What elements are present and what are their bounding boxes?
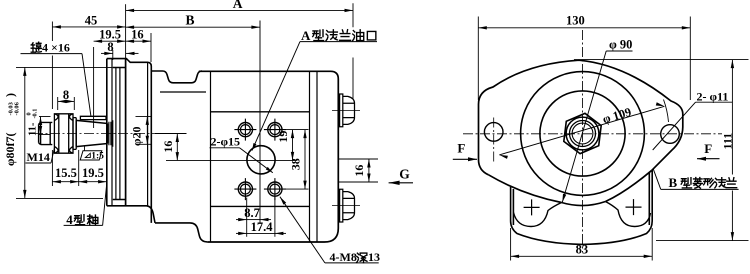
port face bottom edge bbox=[211, 205, 310, 207]
dimension 45 bbox=[52, 26, 125, 28]
dimension 130 extensions bbox=[477, 17, 479, 101]
dimension 83 bbox=[511, 255, 653, 257]
flange bolt hole left bbox=[484, 123, 503, 142]
hex shaft end nut bbox=[564, 113, 601, 153]
dimension A extension left bbox=[125, 4, 127, 58]
dimension B bbox=[126, 26, 260, 28]
dimension 19.5 extension bbox=[93, 47, 95, 128]
dimension phi20 bbox=[146, 116, 148, 144]
dimension 8.7 bbox=[247, 219, 260, 221]
svg-text:11-: 11- bbox=[28, 122, 39, 136]
phi80 extension lines bbox=[16, 66, 113, 68]
dimension 11 taper end bbox=[40, 117, 42, 135]
dimension 38 bbox=[304, 130, 306, 190]
shaft M14 threaded end bbox=[39, 122, 53, 144]
right view horizontal centerline bbox=[463, 133, 722, 135]
seal gland lines bbox=[109, 120, 113, 147]
svg-text:M14: M14 bbox=[27, 150, 50, 164]
flange lower-left edge to cover arc bbox=[489, 175, 562, 203]
M8 socket screw lower-left bbox=[238, 182, 252, 196]
body joint line rear cover bbox=[316, 71, 318, 242]
svg-text:-0.06: -0.06 bbox=[14, 101, 21, 115]
svg-text:130: 130 bbox=[566, 13, 585, 27]
svg-text:φ 90: φ 90 bbox=[609, 37, 632, 51]
M8 socket screw lower-right bbox=[268, 182, 282, 196]
dimension 15.5/19.5 extensions bbox=[52, 148, 106, 186]
shaft washer step bbox=[73, 118, 76, 150]
shaft taper 1:5 section bbox=[76, 120, 107, 146]
svg-text:15.5: 15.5 bbox=[55, 166, 77, 180]
key 4x16 on taper bbox=[80, 116, 106, 119]
label key 4x16 bbox=[31, 42, 41, 52]
dimension phi80f7 bbox=[24, 67, 26, 198]
svg-text:19: 19 bbox=[276, 131, 290, 143]
flange bolt hole right bbox=[661, 125, 680, 144]
svg-text:B: B bbox=[185, 13, 194, 28]
M8 socket screw upper-left bbox=[238, 123, 252, 137]
taper symbol 1:5 flag bbox=[80, 151, 102, 160]
dimension 83 extensions bbox=[510, 228, 512, 261]
dimension 15.5 bbox=[52, 181, 78, 183]
svg-text:B: B bbox=[669, 175, 678, 190]
mounting bracket outline bbox=[511, 171, 653, 245]
svg-text:A: A bbox=[301, 28, 311, 43]
svg-text:F: F bbox=[704, 141, 712, 156]
dimension 111 bbox=[731, 60, 733, 175]
body joint line port-face right edge bbox=[309, 71, 311, 242]
bracket hole center mark right bbox=[626, 199, 642, 215]
svg-text:16: 16 bbox=[161, 141, 175, 153]
dimension 19 extensions bbox=[282, 129, 309, 131]
dimension 111 extensions bbox=[574, 59, 749, 61]
dimension 8 hex bbox=[57, 97, 59, 110]
svg-text:8: 8 bbox=[107, 40, 113, 54]
svg-text:83: 83 bbox=[576, 242, 589, 256]
phi90 cover bottom arc bbox=[562, 202, 606, 206]
port face centerline extension of B bbox=[259, 21, 261, 207]
shaft hex flats section bbox=[54, 114, 73, 153]
svg-text:16: 16 bbox=[352, 165, 366, 177]
flange lower-right edge bbox=[606, 170, 652, 201]
shaft end circle 2 bbox=[570, 121, 596, 147]
flange pilot boss phi80 bbox=[113, 68, 126, 200]
port face top edge bbox=[211, 111, 310, 113]
bracket hole center mark left bbox=[524, 199, 540, 215]
dimension 8 boss bbox=[101, 52, 113, 54]
svg-text:111: 111 bbox=[721, 133, 735, 150]
diamond flange outline bbox=[479, 60, 683, 175]
svg-text:4 ×16: 4 ×16 bbox=[42, 40, 70, 54]
dimension 8.7 extensions bbox=[247, 198, 260, 224]
svg-text:φ80f7(: φ80f7( bbox=[3, 133, 17, 166]
dimension 16 right extensions bbox=[338, 158, 378, 160]
dimension 16 left bbox=[176, 134, 178, 161]
pump body outline bbox=[199, 71, 338, 242]
dimension 19 bbox=[292, 130, 294, 161]
dimension 130 bbox=[478, 27, 690, 29]
dimension 45 extension bbox=[51, 22, 53, 42]
svg-text:G: G bbox=[399, 167, 410, 182]
cover inner circle bbox=[540, 91, 625, 176]
svg-text:17.4: 17.4 bbox=[251, 220, 274, 234]
front cover neck outline bbox=[151, 67, 207, 242]
svg-text:13: 13 bbox=[368, 250, 380, 264]
dimension A extension right bbox=[352, 3, 354, 99]
svg-text:38: 38 bbox=[288, 158, 302, 170]
dimension 19.5 bottom bbox=[79, 181, 107, 183]
dimension 17.4 bbox=[247, 232, 275, 234]
center port hole phi15 bbox=[247, 146, 275, 174]
dimension 17.4 extensions bbox=[247, 198, 275, 237]
dimension 16 left extensions bbox=[155, 133, 187, 135]
svg-text:φ20: φ20 bbox=[129, 127, 143, 147]
svg-text:45: 45 bbox=[85, 13, 98, 27]
rear cover hex bolt lower bbox=[340, 189, 355, 222]
dimension 16 right bbox=[368, 159, 370, 182]
svg-text:-0.1: -0.1 bbox=[31, 109, 38, 119]
svg-text:8.7: 8.7 bbox=[244, 206, 260, 220]
svg-text:): ) bbox=[3, 93, 17, 97]
bolt circle arc at right hole bbox=[664, 100, 669, 123]
svg-text:1:5: 1:5 bbox=[91, 151, 104, 161]
right view vertical centerline bbox=[582, 30, 584, 252]
dimension 19.5 top bbox=[94, 40, 126, 42]
svg-text:19.5: 19.5 bbox=[82, 166, 104, 180]
svg-text:2- φ11: 2- φ11 bbox=[697, 89, 729, 103]
svg-text:4: 4 bbox=[66, 212, 73, 227]
svg-text:F: F bbox=[457, 141, 465, 156]
svg-text:16: 16 bbox=[131, 28, 144, 42]
shaft end circle 1 bbox=[566, 117, 599, 150]
flange mounting face datum bbox=[125, 59, 127, 206]
M8 socket screw upper-right bbox=[268, 123, 282, 137]
bearing sleeve edge line bbox=[160, 91, 206, 93]
gear housing outer circle bbox=[521, 72, 645, 196]
dimension phi20 extensions bbox=[136, 115, 153, 117]
dimension 16 top bbox=[126, 40, 151, 42]
shaft centerline bbox=[33, 133, 170, 135]
bracket saddle pockets bbox=[514, 202, 651, 227]
dimension 16 top extension bbox=[150, 33, 152, 62]
dimension phi109 line bbox=[499, 106, 664, 155]
dimension A bbox=[126, 9, 353, 11]
shaft end circle 3 bbox=[572, 123, 593, 144]
dimension 38 extensions bbox=[282, 188, 309, 190]
flange plate inner verticals bbox=[112, 59, 148, 206]
svg-text:2-φ15: 2-φ15 bbox=[211, 134, 240, 148]
body joint line front bbox=[210, 71, 212, 242]
svg-text:4-M8: 4-M8 bbox=[330, 250, 357, 264]
rear cover hex bolt upper bbox=[340, 94, 355, 127]
svg-text:8: 8 bbox=[63, 88, 69, 102]
flange plate outline bbox=[107, 59, 155, 223]
svg-text:A: A bbox=[233, 0, 243, 11]
